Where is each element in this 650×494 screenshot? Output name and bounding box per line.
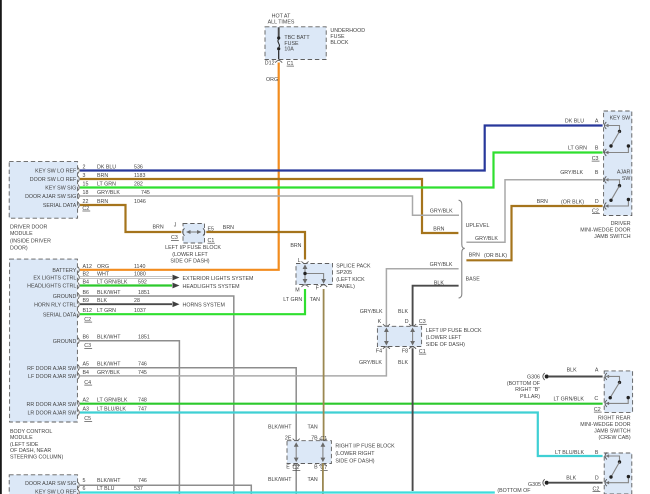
wire DK BLU 536 to key sw pin A [80,126,603,171]
ground G305 (bottom of right B pillar, clipped) [497,476,602,494]
svg-text:RIGHT I/P FUSE BLOCK: RIGHT I/P FUSE BLOCK [335,443,395,449]
svg-text:BRN: BRN [223,225,234,231]
svg-text:(INSIDE DRIVER: (INSIDE DRIVER [10,239,51,245]
svg-text:HORNS SYSTEM: HORNS SYSTEM [183,303,225,309]
svg-text:BODY CONTROL: BODY CONTROL [10,429,52,435]
fuse TBC BATT 10A [277,27,310,59]
svg-text:A5: A5 [83,362,90,368]
svg-text:D: D [595,199,599,205]
svg-text:BLK: BLK [398,309,408,315]
svg-text:BRN: BRN [433,227,444,233]
svg-text:A12: A12 [83,264,92,270]
svg-text:GRY/BLK: GRY/BLK [560,170,583,176]
wire LT GRN 282 to key sw pin B [80,153,603,188]
svg-text:BLOCK: BLOCK [330,40,348,46]
pin A3 BCM LR door ajar [78,407,147,416]
wire BLK base to left I/P fuse block pin D [413,280,459,326]
wire LT BLU 537 from passenger door module [80,491,495,493]
svg-text:DOOR AJAR SW SIG: DOOR AJAR SW SIG [25,481,76,487]
node HOT AT ALL TIMES [268,13,295,25]
svg-text:OF DASH, NEAR: OF DASH, NEAR [10,448,51,454]
svg-text:537: 537 [134,486,143,492]
wire BLK/WHT 746 RF door ajar to right I/P fuse block 2E [80,368,296,494]
svg-text:K: K [378,319,382,325]
svg-text:JAMB SWITCH: JAMB SWITCH [594,428,631,434]
connector C4 BCM [84,380,92,386]
svg-text:18: 18 [83,190,89,196]
switch key sw [606,126,630,153]
svg-text:SIDE OF DASH): SIDE OF DASH) [335,459,374,465]
module driver door module (inside driver door) [9,162,77,252]
svg-text:L: L [298,258,301,264]
svg-text:(LOWER RIGHT: (LOWER RIGHT [335,451,375,457]
splice pack SP205 (left kick panel) [295,258,371,294]
pin 18 driver door module [78,190,150,199]
svg-text:JAMB SWITCH: JAMB SWITCH [594,234,631,240]
pin B12 BCM serial data [78,308,146,317]
svg-text:1140: 1140 [134,264,145,270]
pin B4 BCM headlights [78,280,147,289]
svg-text:(LEFT SIDE: (LEFT SIDE [10,442,39,448]
wire ORG 1140 from underhood fuse block to BCM A12 [80,63,279,270]
module body control module (left side of dash near steering column) [10,259,78,460]
right I/P fuse block (lower right side of dash) [268,424,395,483]
wire BLK/WHT 1851 ground C3 down off page [80,341,179,494]
svg-text:GROUND: GROUND [53,294,77,300]
svg-text:B: B [314,465,318,471]
svg-text:MODULE: MODULE [10,231,33,237]
svg-text:10A: 10A [284,47,294,53]
module driver mini-wedge door jamb switch [580,111,632,240]
svg-text:F8: F8 [402,348,408,354]
svg-text:GRY/BLK: GRY/BLK [360,309,383,315]
pin B6 BCM ground C2 [78,290,150,299]
svg-text:G306: G306 [527,375,540,381]
wire BRN 1046 from inline connector to splice pack SP205 [206,225,305,260]
svg-text:D: D [405,319,409,325]
svg-text:E: E [286,465,290,471]
switch right rear jamb [607,376,630,403]
pin B key sw [568,146,609,162]
svg-text:BRN: BRN [290,243,301,249]
svg-text:LT GRN: LT GRN [568,146,587,152]
pin B9 BCM horn [78,298,140,307]
svg-text:DOOR SW LO REF: DOOR SW LO REF [30,177,77,183]
pin B left rear jamb switch [605,453,609,460]
switch left rear jamb [607,456,631,483]
svg-text:(LOWER LEFT: (LOWER LEFT [172,252,208,258]
svg-text:TAN: TAN [310,297,320,303]
wire GRY/BLK 745 to brace uplevel [80,196,459,215]
svg-text:AJAR: AJAR [617,169,631,175]
svg-text:C: C [594,396,598,402]
svg-text:BLK/WHT: BLK/WHT [97,362,121,368]
svg-text:SERIAL DATA: SERIAL DATA [43,312,77,318]
pin 5 passenger door module [78,478,147,488]
svg-text:GRY/BLK: GRY/BLK [430,262,453,268]
svg-text:1046: 1046 [134,199,146,205]
svg-text:DRIVER: DRIVER [611,221,631,227]
svg-text:745: 745 [141,190,150,196]
module left rear mini-wedge door jamb switch (clipped) [604,453,632,494]
module right rear mini-wedge door jamb switch (crew cab) [580,371,632,441]
pin 22 driver door module [78,199,146,208]
svg-text:RIGHT “B”: RIGHT “B” [515,387,540,393]
svg-text:KEY SW: KEY SW [610,116,631,122]
svg-text:BASE: BASE [466,277,481,283]
wire BLK/WHT 1851 ground C2 down off page [80,296,234,494]
svg-text:TAN: TAN [308,424,318,430]
wire LT GRN/BLK 592 to headlights system [80,283,240,290]
svg-text:BLK: BLK [434,280,444,286]
svg-text:LT GRN/BLK: LT GRN/BLK [553,396,584,402]
svg-text:KEY SW SIG: KEY SW SIG [45,186,76,192]
svg-text:SERIAL DATA: SERIAL DATA [43,203,77,209]
svg-text:(OR BLK): (OR BLK) [484,253,507,259]
wire BLK/WHT 746 from passenger door module down off page [80,485,251,494]
svg-text:D: D [595,476,599,482]
svg-text:(BOTTOM OF: (BOTTOM OF [497,488,531,494]
svg-text:BATTERY: BATTERY [52,268,76,274]
pin A12 BCM [78,264,146,273]
svg-text:G305: G305 [528,482,541,488]
svg-text:(LEFT KICK: (LEFT KICK [336,277,365,283]
svg-text:KEY SW LO REF: KEY SW LO REF [35,169,77,175]
wire GRY/BLK base to left I/P fuse block pin K [386,262,458,326]
wire GRY/BLK 745 LF door ajar to left I/P fuse block F4 [80,348,386,376]
wire TAN below right I/P fuse block off page [322,463,324,494]
svg-text:BRN: BRN [537,199,548,205]
svg-text:DOOR AJAR SW SIG: DOOR AJAR SW SIG [25,194,76,200]
svg-text:SIDE OF DASH): SIDE OF DASH) [426,342,465,348]
wire LT GRN/BLK 748 RR door ajar to right rear jamb switch pin C [80,403,603,405]
wire BRN 1046 to inline connector C3 [80,205,181,232]
pin 3 driver door module [78,173,146,182]
svg-text:TBC BATT: TBC BATT [284,35,310,41]
svg-text:LEFT I/P FUSE BLOCK: LEFT I/P FUSE BLOCK [426,328,482,334]
svg-text:LR DOOR AJAR SW: LR DOOR AJAR SW [27,411,76,417]
svg-text:GRY/BLK: GRY/BLK [97,370,120,376]
svg-text:LF DOOR AJAR SW: LF DOOR AJAR SW [28,374,76,380]
svg-text:ALL TIMES: ALL TIMES [268,19,295,25]
svg-text:MODULE: MODULE [10,435,33,441]
pin A5 BCM RF door ajar [78,362,147,371]
ground G306 (bottom of right B pillar) [507,367,603,400]
svg-text:RR DOOR AJAR SW: RR DOOR AJAR SW [27,402,77,408]
module passenger door module (bottom, clipped) [9,475,77,494]
svg-text:GROUND: GROUND [53,339,77,345]
svg-text:SW: SW [622,176,631,182]
label BRN uplevel left [433,227,444,233]
svg-text:GRY/BLK: GRY/BLK [475,236,498,242]
svg-text:BLK/WHT: BLK/WHT [97,290,121,296]
svg-text:1851: 1851 [138,335,150,341]
svg-text:LEFT I/P FUSE BLOCK: LEFT I/P FUSE BLOCK [165,245,221,251]
wire TAN from SP205 pin F to right I/P fuse block 7B [310,289,324,441]
page left edge border [0,0,2,494]
svg-text:D12: D12 [265,61,275,67]
connector C2 BCM [84,317,92,323]
svg-text:(OR BLK): (OR BLK) [561,200,584,206]
wire GRY/BLK uplevel right to ajar sw pin B [466,180,602,243]
svg-text:TAN: TAN [308,477,318,483]
svg-text:A: A [595,119,599,125]
svg-text:(BOTTOM OF: (BOTTOM OF [507,381,541,387]
wire LT GRN 1037 serial data to splice pack SP205 pin M [80,289,305,314]
svg-text:GRY/BLK: GRY/BLK [430,209,453,215]
svg-text:MINI-WEDGE DOOR: MINI-WEDGE DOOR [580,228,630,234]
svg-text:LT BLU/BLK: LT BLU/BLK [555,450,584,456]
svg-text:DOOR): DOOR) [10,246,28,252]
svg-text:BRN: BRN [469,252,480,258]
svg-text:ORG: ORG [266,77,278,83]
svg-text:RIGHT REAR: RIGHT REAR [598,415,631,421]
pin 6 passenger door module [78,486,143,494]
svg-text:B: B [595,146,599,152]
connector C2 driver door module [82,206,90,212]
pin B6 BCM ground C3 [78,335,150,344]
svg-text:KEY SW LO REF: KEY SW LO REF [35,489,77,494]
wire WHT 1080 to exterior lights system [80,275,253,282]
svg-text:(CREW CAB): (CREW CAB) [599,435,631,441]
svg-text:LT BLU: LT BLU [97,486,115,492]
pin 2 driver door module [78,165,143,174]
svg-text:BLK: BLK [566,476,576,482]
svg-text:746: 746 [138,478,147,484]
svg-text:BLK: BLK [398,360,408,366]
wire BLK from left I/P fuse block F8 down off page [412,348,414,491]
svg-text:B6: B6 [83,335,90,341]
switch ajar sw [606,180,630,206]
svg-text:MINI-WEDGE DOOR: MINI-WEDGE DOOR [580,422,630,428]
pin D ajar sw [537,199,609,214]
wire LT BLU/BLK label left rear switch [555,450,599,456]
wire BLK 28 to horns system [80,301,225,308]
svg-text:F: F [316,285,320,291]
pin B2 BCM [78,272,146,281]
svg-text:BLK: BLK [567,367,577,373]
svg-text:B4: B4 [83,370,90,376]
svg-text:UPLEVEL: UPLEVEL [466,223,490,229]
connector C3 BCM [84,343,92,349]
svg-text:5: 5 [83,478,86,484]
pin 15 driver door module [78,182,143,191]
svg-text:HEADLIGHTS SYSTEM: HEADLIGHTS SYSTEM [183,284,240,290]
svg-text:GRY/BLK: GRY/BLK [97,190,120,196]
pin B ajar sw [560,170,608,183]
pin D12 C1 underhood fuse block exit [265,60,294,66]
wire BRN 1183 to brace uplevel [80,179,458,233]
svg-text:BLK/WHT: BLK/WHT [97,335,121,341]
svg-text:B: B [595,450,599,456]
svg-text:SPLICE PACK: SPLICE PACK [336,263,371,269]
svg-text:BRN: BRN [153,224,164,230]
svg-text:LT GRN: LT GRN [283,297,302,303]
svg-text:SIDE OF DASH): SIDE OF DASH) [170,258,209,264]
underhood fuse block [265,27,365,60]
svg-text:EX LIGHTS CTRL: EX LIGHTS CTRL [33,276,76,282]
svg-text:BLK/WHT: BLK/WHT [268,424,292,430]
svg-text:PANEL): PANEL) [336,284,355,290]
svg-text:PILLAR): PILLAR) [520,394,540,400]
svg-text:1851: 1851 [138,290,150,296]
pin A2 BCM RR door ajar [78,398,147,407]
svg-text:EXTERIOR LIGHTS SYSTEM: EXTERIOR LIGHTS SYSTEM [183,276,254,282]
pin B4 BCM LF door ajar [78,370,147,379]
svg-text:6: 6 [83,486,86,492]
svg-text:RF DOOR AJAR SW: RF DOOR AJAR SW [27,366,76,372]
svg-text:J: J [174,222,177,228]
svg-text:F4: F4 [376,348,382,354]
svg-text:B6: B6 [83,290,90,296]
svg-text:A: A [595,367,599,373]
svg-text:(LOWER LEFT: (LOWER LEFT [426,335,462,341]
svg-text:BLK/WHT: BLK/WHT [268,477,292,483]
pin D left rear jamb switch [593,479,610,492]
label GRY/BLK uplevel left [430,209,453,215]
wire LT BLU/BLK 747 LR door ajar to left rear jamb switch pin B [80,413,603,457]
svg-text:M: M [295,288,299,294]
brace uplevel/base grouping [459,200,490,298]
svg-text:SP205: SP205 [336,270,352,276]
inline connector left I/P fuse block C3-E5-C1 [165,222,221,264]
svg-text:746: 746 [138,362,147,368]
svg-text:DRIVER DOOR: DRIVER DOOR [10,225,48,231]
svg-text:B: B [595,170,599,176]
svg-text:HEADLIGHTS CTRL: HEADLIGHTS CTRL [27,284,76,290]
pin A key sw [565,119,609,129]
svg-text:STEERING COLUMN): STEERING COLUMN) [10,454,64,460]
pin C right rear jamb switch [553,396,609,413]
svg-text:HORN RLY CTRL: HORN RLY CTRL [34,302,76,308]
svg-text:GRY/BLK: GRY/BLK [359,360,382,366]
left I/P fuse block (lower left side of dash) [359,309,482,366]
svg-text:DK BLU: DK BLU [565,119,584,125]
svg-text:BLK/WHT: BLK/WHT [97,478,121,484]
pin A right rear jamb switch [605,373,609,380]
svg-text:745: 745 [138,370,147,376]
svg-text:ORG: ORG [97,264,109,270]
connector C5 BCM [84,416,92,422]
wire BRN (OR BLK) uplevel right to ajar sw pin D [466,206,602,260]
